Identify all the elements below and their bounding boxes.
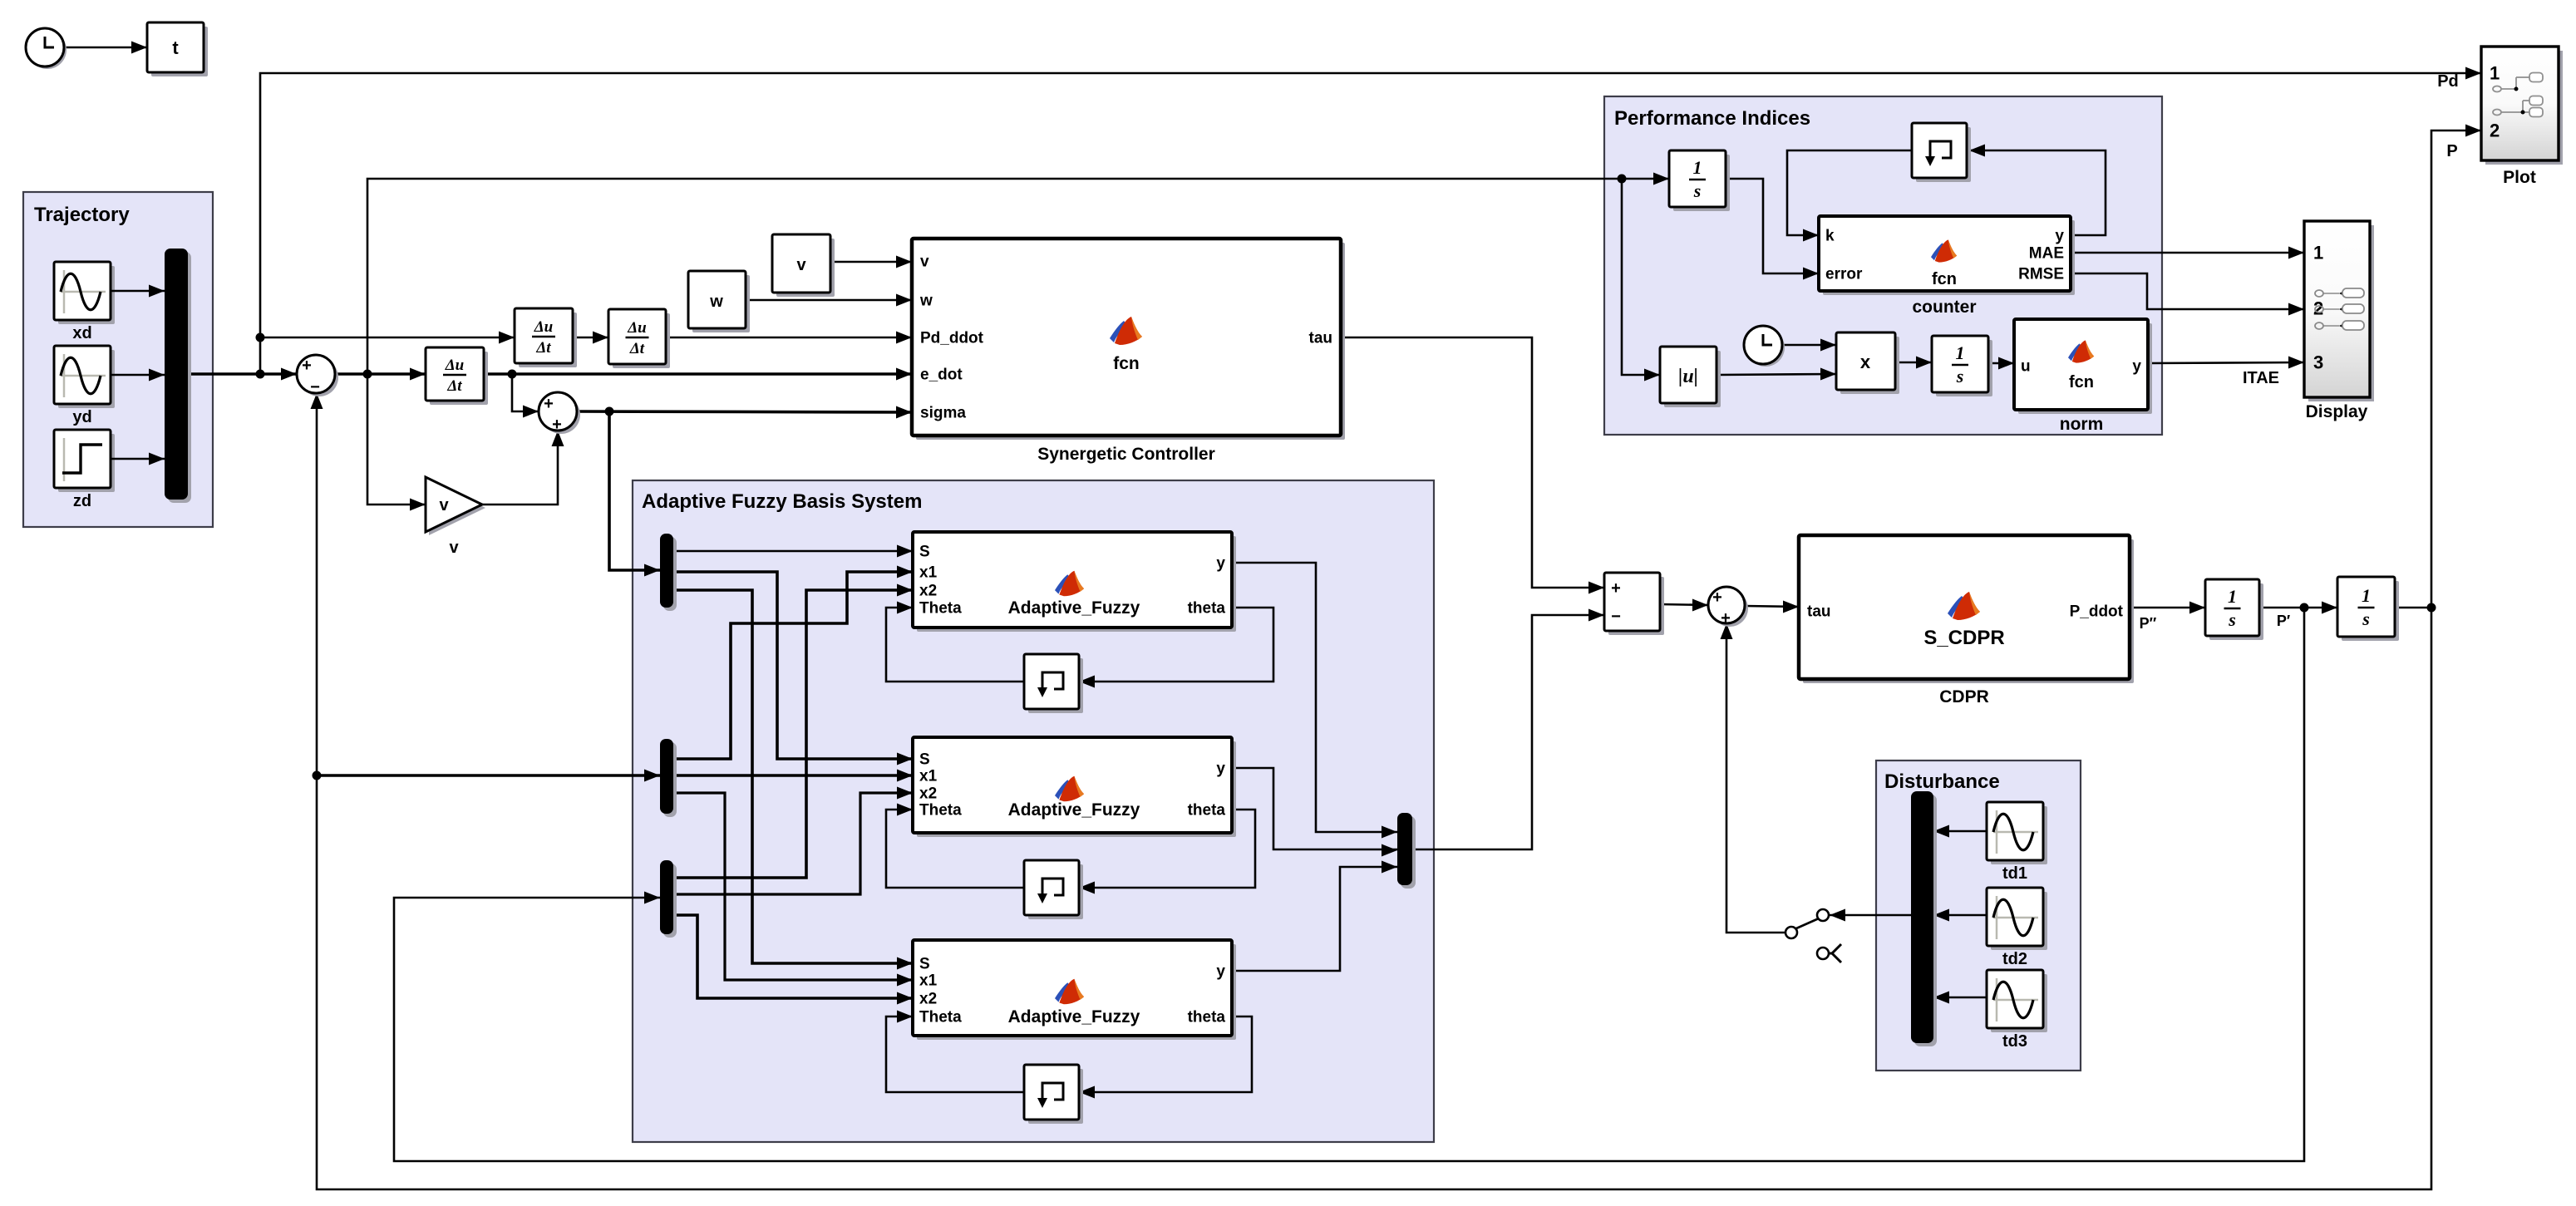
svg-text:Trajectory: Trajectory <box>34 204 130 226</box>
svg-text:ITAE: ITAE <box>2243 369 2279 387</box>
svg-text:2: 2 <box>2490 121 2500 141</box>
svg-text:x1: x1 <box>919 768 938 785</box>
svg-text:+: + <box>544 395 554 413</box>
svg-text:1: 1 <box>1956 342 1965 363</box>
svg-text:Δu: Δu <box>627 319 646 337</box>
svg-text:e_dot: e_dot <box>920 367 963 384</box>
svg-text:Display: Display <box>2306 402 2368 421</box>
svg-text:td1: td1 <box>2002 864 2027 883</box>
svg-text:sigma: sigma <box>920 405 966 422</box>
svg-text:1: 1 <box>2313 243 2323 263</box>
svg-text:Theta: Theta <box>919 600 962 618</box>
svg-text:Pd: Pd <box>2437 72 2459 91</box>
svg-text:x: x <box>1860 352 1871 372</box>
svg-text:fcn: fcn <box>1932 270 1957 288</box>
svg-text:S: S <box>919 544 930 561</box>
svg-text:+: + <box>1712 588 1722 607</box>
svg-text:Adaptive_Fuzzy: Adaptive_Fuzzy <box>1008 800 1140 820</box>
svg-text:td3: td3 <box>2002 1032 2027 1051</box>
svg-text:s: s <box>1956 366 1964 386</box>
svg-text:s: s <box>1693 180 1702 201</box>
svg-text:y: y <box>1216 555 1225 573</box>
svg-text:1: 1 <box>2228 586 2237 607</box>
svg-text:norm: norm <box>2060 415 2104 434</box>
svg-text:k: k <box>1825 228 1835 245</box>
svg-text:Synergetic Controller: Synergetic Controller <box>1037 445 1215 464</box>
svg-text:x2: x2 <box>919 583 937 600</box>
svg-text:y: y <box>2132 358 2141 376</box>
svg-text:RMSE: RMSE <box>2018 266 2064 283</box>
svg-text:Disturbance: Disturbance <box>1884 770 2000 793</box>
svg-text:tau: tau <box>1807 603 1831 621</box>
svg-text:counter: counter <box>1912 298 1976 317</box>
svg-text:MAE: MAE <box>2029 245 2064 263</box>
svg-text:+: + <box>1721 609 1731 628</box>
svg-text:y: y <box>1216 761 1225 778</box>
svg-text:Δt: Δt <box>446 377 462 395</box>
svg-text:S: S <box>919 751 930 769</box>
svg-text:|u|: |u| <box>1678 366 1698 387</box>
svg-text:P′: P′ <box>2277 613 2290 629</box>
svg-text:Adaptive Fuzzy Basis System: Adaptive Fuzzy Basis System <box>642 490 922 513</box>
svg-text:v: v <box>920 254 929 271</box>
svg-text:xd: xd <box>72 324 91 342</box>
svg-text:CDPR: CDPR <box>1939 687 1989 706</box>
svg-text:v: v <box>796 256 806 274</box>
svg-text:fcn: fcn <box>2069 373 2094 391</box>
svg-text:x2: x2 <box>919 991 937 1008</box>
svg-text:Performance Indices: Performance Indices <box>1614 107 1810 130</box>
svg-text:1: 1 <box>2490 63 2500 84</box>
svg-text:Theta: Theta <box>919 1009 962 1026</box>
svg-text:error: error <box>1825 266 1863 283</box>
svg-text:x1: x1 <box>919 972 938 990</box>
svg-text:3: 3 <box>2313 352 2323 373</box>
svg-text:Δt: Δt <box>629 340 645 357</box>
svg-text:S: S <box>919 956 930 973</box>
svg-text:Δt: Δt <box>535 339 551 357</box>
svg-text:v: v <box>449 539 459 557</box>
svg-text:P″: P″ <box>2140 615 2157 632</box>
svg-text:y: y <box>2055 228 2064 245</box>
svg-text:s: s <box>2228 609 2236 630</box>
svg-text:s: s <box>2362 608 2370 629</box>
svg-text:t: t <box>172 37 179 58</box>
svg-text:w: w <box>919 293 933 310</box>
svg-text:Adaptive_Fuzzy: Adaptive_Fuzzy <box>1008 1007 1140 1026</box>
svg-text:Pd_ddot: Pd_ddot <box>920 330 984 347</box>
svg-text:td2: td2 <box>2002 950 2027 968</box>
svg-text:S_CDPR: S_CDPR <box>1923 627 2004 649</box>
svg-text:1: 1 <box>2362 585 2371 606</box>
svg-text:+: + <box>552 416 562 434</box>
svg-text:Δu: Δu <box>534 318 553 336</box>
svg-text:tau: tau <box>1309 330 1333 347</box>
svg-text:−: − <box>1611 608 1621 626</box>
svg-text:+: + <box>302 357 312 375</box>
svg-text:u: u <box>2021 358 2031 376</box>
svg-text:x1: x1 <box>919 564 938 582</box>
svg-text:zd: zd <box>73 492 91 510</box>
svg-text:−: − <box>310 378 320 396</box>
svg-text:v: v <box>439 496 449 514</box>
svg-text:+: + <box>1611 579 1621 598</box>
svg-text:Adaptive_Fuzzy: Adaptive_Fuzzy <box>1008 598 1140 618</box>
svg-text:Δu: Δu <box>445 357 464 374</box>
svg-text:theta: theta <box>1188 1009 1226 1026</box>
svg-text:x2: x2 <box>919 785 937 803</box>
svg-text:w: w <box>709 293 723 311</box>
svg-text:fcn: fcn <box>1113 354 1140 373</box>
svg-text:theta: theta <box>1188 600 1226 618</box>
svg-text:y: y <box>1216 963 1225 981</box>
svg-text:P: P <box>2446 142 2457 160</box>
svg-text:1: 1 <box>1693 157 1702 178</box>
svg-text:Plot: Plot <box>2503 168 2536 187</box>
svg-text:P_ddot: P_ddot <box>2070 603 2124 621</box>
svg-text:Theta: Theta <box>919 802 962 820</box>
svg-text:theta: theta <box>1188 802 1226 820</box>
svg-text:yd: yd <box>72 408 91 426</box>
